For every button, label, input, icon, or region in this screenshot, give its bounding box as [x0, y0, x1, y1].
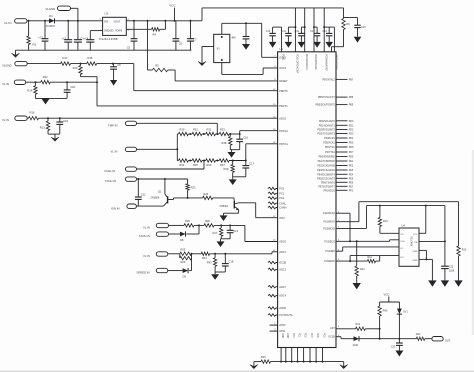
- wire: [214, 224, 245, 226]
- wire CLK: [336, 240, 399, 243]
- svg-text:C23: C23: [391, 346, 396, 349]
- svg-text:D1: D1: [49, 14, 53, 18]
- wire: [230, 149, 239, 151]
- svg-text:R45: R45: [261, 355, 266, 359]
- wire: [90, 30, 102, 32]
- resistor R5: [147, 20, 176, 81]
- wire: [169, 224, 185, 226]
- resistor R12: [41, 75, 51, 84]
- regulator U2: [99, 12, 130, 42]
- ground: [12, 50, 20, 57]
- svg-text:VOUT: VOUT: [114, 20, 121, 23]
- svg-text:R4: R4: [153, 32, 157, 36]
- svg-text:PE5/OC3C/INT5: PE5/OC3C/INT5: [317, 177, 335, 180]
- svg-text:TACH IN: TACH IN: [105, 179, 116, 183]
- svg-text:PD5/XCK1: PD5/XCK1: [323, 142, 335, 145]
- wire: [50, 81, 97, 83]
- capacitor C23: [391, 339, 403, 351]
- resistor R10: [378, 206, 388, 234]
- wire riser: [304, 8, 306, 52]
- svg-text:C10: C10: [266, 30, 271, 33]
- resistor R18: [87, 56, 97, 65]
- wire: [233, 176, 246, 178]
- wire: [472, 150, 474, 335]
- svg-text:PB7/XTAL2: PB7/XTAL2: [322, 78, 335, 81]
- svg-text:R37: R37: [220, 163, 225, 167]
- wire: [137, 178, 188, 180]
- svg-text:PE4/OC3B/INT4: PE4/OC3B/INT4: [317, 173, 335, 176]
- resistor R42: [416, 333, 425, 340]
- svg-text:PDT/CL: PDT/CL: [279, 143, 289, 146]
- resistor R11: [367, 256, 375, 263]
- ground rail: [254, 361, 344, 363]
- ground: [250, 362, 258, 369]
- svg-text:GND: GND: [281, 333, 283, 338]
- svg-text:PF0/ADC0: PF0/ADC0: [323, 189, 335, 192]
- svg-text:VDDCORE/VCAP: VDDCORE/VCAP: [296, 54, 299, 74]
- resistor R9: [342, 8, 350, 47]
- resistor R38: [222, 134, 233, 150]
- resistor R28: [204, 219, 214, 227]
- resistor R33: [219, 128, 229, 136]
- svg-text:PE2/XCK0/AIN0: PE2/XCK0/AIN0: [317, 165, 335, 168]
- svg-text:CLK: CLK: [401, 241, 406, 243]
- capacitor C4: [84, 31, 95, 51]
- svg-text:ORG: ORG: [413, 251, 418, 253]
- ground: [51, 134, 59, 141]
- svg-text:VDDANA/AREF: VDDANA/AREF: [324, 54, 327, 72]
- resistor R29: [180, 254, 192, 264]
- wire: [189, 258, 191, 271]
- wire: [55, 20, 103, 22]
- wire OSC1: [262, 23, 278, 57]
- MCU right pin stubs: [316, 78, 354, 192]
- svg-text:VL IN: VL IN: [111, 149, 118, 153]
- svg-text:TACH IN: TACH IN: [139, 234, 150, 238]
- node TACH_IN2: [139, 232, 169, 238]
- svg-text:C14: C14: [322, 30, 327, 33]
- ground: [242, 44, 250, 50]
- svg-text:PG5/EDO: PG5/EDO: [324, 260, 335, 263]
- wire: [336, 202, 459, 246]
- capacitor C5: [127, 20, 138, 50]
- wire: [224, 210, 239, 214]
- capacitor C12: [295, 27, 305, 42]
- node VCC2: [384, 292, 390, 302]
- wire: [136, 205, 163, 207]
- svg-text:R31: R31: [202, 256, 207, 260]
- wire: [27, 117, 28, 119]
- wire riser: [281, 27, 283, 52]
- wire VCC rail: [202, 8, 344, 21]
- resistor R13b: [457, 246, 467, 281]
- svg-text:C13: C13: [233, 229, 238, 233]
- ground: [220, 213, 228, 221]
- transistor Q2: [220, 198, 239, 210]
- ground: [228, 150, 236, 158]
- wire: [137, 148, 178, 150]
- svg-text:R13: R13: [40, 125, 45, 129]
- node VL_IN3: [2, 116, 27, 122]
- svg-text:ADC4: ADC4: [279, 295, 286, 298]
- wire OSC2: [222, 63, 278, 75]
- wire: [35, 97, 67, 99]
- node VL_IN2: [2, 80, 26, 86]
- capacitor C18: [222, 254, 234, 272]
- wire to MCU: [39, 117, 278, 119]
- svg-text:PD4/ICP1: PD4/ICP1: [324, 137, 335, 140]
- svg-text:PD6/T1C: PD6/T1C: [325, 146, 335, 149]
- svg-text:PE7: PE7: [349, 185, 354, 188]
- svg-text:PO/TRG/TA: PO/TRG/TA: [279, 314, 293, 317]
- ground: [340, 362, 348, 369]
- resistor R1: [27, 36, 37, 47]
- node TMP_IN: [108, 121, 137, 127]
- svg-text:PD3: PD3: [349, 133, 354, 136]
- wire: [202, 47, 214, 59]
- svg-text:D8: D8: [180, 238, 184, 242]
- svg-text:TMP IN: TMP IN: [108, 124, 117, 128]
- wire: [216, 133, 220, 135]
- wire to MCU: [96, 77, 278, 106]
- wire: [365, 328, 379, 330]
- wire: [26, 81, 41, 83]
- svg-text:VCC: VCC: [169, 4, 176, 8]
- wire VCC out: [126, 20, 202, 22]
- resistor R41: [356, 323, 366, 330]
- capacitor C19: [56, 118, 68, 134]
- svg-text:PB6: PB6: [349, 96, 354, 99]
- resistor R16: [29, 111, 39, 120]
- resistor R17: [61, 56, 71, 65]
- svg-text:R16: R16: [30, 111, 35, 115]
- svg-text:PD0/SCL/INT0: PD0/SCL/INT0: [319, 120, 335, 123]
- svg-text:D9: D9: [183, 274, 187, 278]
- svg-text:+C1: +C1: [38, 35, 43, 39]
- node VL_IN5: [143, 223, 169, 229]
- svg-text:PE4: PE4: [349, 173, 354, 176]
- svg-text:PD4: PD4: [349, 137, 354, 140]
- svg-text:R24: R24: [204, 192, 209, 196]
- ground: [198, 59, 206, 66]
- wire: [188, 160, 192, 162]
- wire: [194, 224, 204, 226]
- wire: [425, 338, 432, 340]
- svg-text:R12: R12: [360, 268, 365, 271]
- diode D11: [353, 336, 360, 347]
- svg-text:PG3/ECS: PG3/ECS: [324, 240, 335, 243]
- node VL_IN input: [4, 19, 27, 25]
- wire DI: [336, 247, 399, 251]
- svg-text:PC3: PC3: [310, 333, 312, 338]
- wire: [28, 20, 30, 36]
- wire: [137, 161, 205, 170]
- svg-text:R32: R32: [207, 128, 212, 132]
- ground: [285, 42, 293, 48]
- wire: [168, 253, 180, 255]
- transistor Q1: [151, 179, 174, 206]
- svg-text:C8: C8: [117, 63, 121, 67]
- label 8MHz: [232, 36, 236, 40]
- svg-text:93LC46B: 93LC46B: [410, 237, 412, 247]
- svg-text:PE3/OC3A/AIN1: PE3/OC3A/AIN1: [317, 169, 335, 172]
- svg-text:C6: C6: [179, 42, 183, 46]
- wire: [350, 256, 399, 262]
- svg-text:+C2: +C2: [61, 36, 66, 40]
- ground: [441, 280, 449, 286]
- capacitor C2: [61, 20, 72, 50]
- node SPEED_IN: [137, 268, 168, 274]
- wire: [221, 238, 230, 240]
- svg-text:R35: R35: [193, 163, 198, 167]
- ground: [41, 98, 49, 104]
- svg-text:VCC: VCC: [384, 292, 390, 296]
- ground: [428, 280, 436, 286]
- wire: [380, 232, 399, 234]
- ground: [298, 42, 306, 48]
- svg-text:SPEED IN: SPEED IN: [137, 271, 150, 275]
- svg-text:R27: R27: [213, 231, 218, 235]
- svg-text:PE5: PE5: [349, 177, 354, 180]
- svg-text:R43: R43: [207, 261, 212, 265]
- wire: [380, 302, 400, 309]
- svg-text:C22: C22: [449, 265, 454, 268]
- svg-text:R31: R31: [193, 128, 198, 132]
- svg-text:CANL: CANL: [279, 202, 286, 205]
- resistor R14: [27, 82, 37, 98]
- svg-text:U2: U2: [105, 12, 109, 16]
- ground: [211, 272, 219, 280]
- svg-text:GND/SD: GND/SD: [104, 30, 114, 33]
- svg-text:2N5401: 2N5401: [220, 205, 229, 208]
- svg-text:R1: R1: [33, 43, 37, 47]
- svg-text:PC5: PC5: [323, 333, 325, 338]
- wire: [229, 133, 240, 135]
- resistor R39: [224, 161, 235, 177]
- resistor R27: [213, 225, 223, 238]
- capacitor C9: [243, 23, 250, 44]
- svg-text:U4: U4: [402, 223, 406, 227]
- svg-text:AD7: AD7: [330, 327, 335, 330]
- svg-text:2N3906: 2N3906: [151, 197, 160, 200]
- svg-text:PE0: PE0: [349, 156, 354, 159]
- wire riser: [323, 8, 325, 52]
- node VCC: [169, 4, 176, 22]
- svg-text:VBAT/VDDSW: VBAT/VDDSW: [335, 54, 338, 70]
- diode D1: [46, 14, 56, 28]
- wire: [336, 213, 350, 241]
- wire: [239, 203, 278, 218]
- svg-text:AVDD: AVDD: [279, 307, 286, 310]
- wire to MCU: [246, 144, 278, 161]
- svg-text:PB0/T0: PB0/T0: [279, 90, 288, 93]
- capacitor C16: [236, 133, 248, 150]
- ground: [325, 42, 333, 48]
- capacitor C11: [282, 27, 296, 42]
- svg-text:C15: C15: [361, 26, 366, 29]
- svg-text:OSC2: OSC2: [279, 67, 286, 70]
- wire to MCU: [272, 252, 278, 254]
- MCU right net labels: [323, 211, 340, 338]
- svg-text:PD6: PD6: [349, 146, 354, 149]
- svg-text:R40: R40: [383, 310, 388, 313]
- svg-text:INT0: INT0: [279, 217, 285, 220]
- resistor R31: [192, 128, 202, 136]
- svg-text:PB5: PB5: [349, 104, 354, 107]
- svg-text:PD1/SDA/INT1: PD1/SDA/INT1: [319, 124, 336, 127]
- capacitor C6: [173, 21, 183, 50]
- resistor R35: [192, 159, 202, 167]
- wire: [419, 240, 446, 242]
- wire: [97, 63, 134, 65]
- wire: [186, 225, 199, 234]
- wire to MCU: [240, 131, 278, 134]
- svg-text:VDDIO2/VREF: VDDIO2/VREF: [314, 54, 317, 70]
- wire: [169, 233, 181, 235]
- svg-text:PD0: PD0: [349, 120, 354, 123]
- svg-text:PD1: PD1: [349, 124, 354, 127]
- wire: [0, 371, 474, 372]
- svg-text:R10: R10: [383, 219, 388, 223]
- ground: [229, 177, 237, 185]
- resistor R43: [207, 254, 217, 272]
- resistor R26: [184, 219, 194, 227]
- capacitor C13: [310, 27, 320, 42]
- capacitor C10: [266, 27, 282, 42]
- svg-text:C21: C21: [141, 192, 146, 196]
- svg-text:VCC: VCC: [413, 234, 418, 236]
- svg-text:PD2: PD2: [349, 129, 354, 132]
- svg-text:PC1: PC1: [279, 192, 284, 195]
- wire: [419, 250, 426, 259]
- wire to MCU: [134, 64, 278, 91]
- ground: [217, 239, 225, 247]
- node VL_GND tag: [46, 6, 71, 11]
- microcontroller U1: [278, 47, 336, 348]
- ground: [395, 351, 403, 357]
- svg-text:R18: R18: [88, 56, 93, 60]
- svg-text:PE1: PE1: [349, 160, 354, 163]
- wire: [222, 22, 262, 34]
- svg-text:PG4/EDI: PG4/EDI: [325, 250, 335, 253]
- wire: [27, 20, 49, 22]
- wire: [48, 133, 60, 135]
- resistor R45: [261, 355, 271, 363]
- svg-text:C19: C19: [63, 119, 68, 123]
- svg-text:PD7/T0A: PD7/T0A: [325, 151, 335, 154]
- svg-text:PE6: PE6: [349, 181, 354, 184]
- wire: [336, 337, 354, 339]
- capacitor C22: [441, 265, 455, 280]
- svg-text:PG2/MOSI: PG2/MOSI: [323, 227, 335, 230]
- svg-text:AVDD/ADREF+: AVDD/ADREF+: [305, 54, 308, 71]
- resonator X1: [214, 34, 230, 62]
- svg-text:R23: R23: [191, 186, 196, 190]
- wire: [213, 197, 234, 199]
- svg-text:R25: R25: [181, 247, 186, 251]
- svg-text:PB6/TOSC1/XT: PB6/TOSC1/XT: [318, 96, 335, 99]
- capacitor C15: [344, 18, 367, 37]
- ground: [354, 37, 362, 43]
- diode D10 zener: [397, 309, 409, 339]
- svg-text:PD3/TXD1/INT3: PD3/TXD1/INT3: [318, 133, 336, 136]
- svg-text:PB1/T1: PB1/T1: [279, 105, 288, 108]
- resistor R31b: [201, 252, 209, 260]
- svg-text:1N4007: 1N4007: [46, 24, 56, 28]
- wire DO: [336, 260, 367, 262]
- svg-text:PC0: PC0: [292, 333, 294, 338]
- svg-text:R36: R36: [207, 163, 212, 167]
- svg-text:IGN IN: IGN IN: [111, 206, 120, 210]
- capacitor C7: [187, 20, 197, 50]
- wire: [419, 258, 432, 280]
- svg-text:PD7: PD7: [349, 151, 354, 154]
- svg-text:RESET: RESET: [279, 80, 288, 83]
- svg-text:R5: R5: [155, 63, 159, 67]
- wire: [27, 63, 60, 65]
- wire riser: [294, 8, 296, 52]
- svg-text:VL IN: VL IN: [2, 118, 9, 122]
- svg-text:VL IN: VL IN: [143, 254, 150, 258]
- node VL_IN4: [111, 147, 137, 153]
- svg-text:VL IN: VL IN: [4, 21, 11, 25]
- svg-text:R38: R38: [222, 141, 227, 145]
- capacitor C8: [110, 63, 121, 80]
- svg-text:PC0: PC0: [279, 188, 284, 191]
- ground: [269, 42, 277, 48]
- svg-text:CS: CS: [401, 234, 405, 236]
- wire grid left: [176, 134, 178, 161]
- svg-text:PE3: PE3: [349, 169, 354, 172]
- svg-text:VL IN: VL IN: [2, 82, 9, 86]
- wire: [332, 47, 344, 52]
- ground: [313, 42, 321, 48]
- svg-text:PE2: PE2: [349, 165, 354, 168]
- svg-text:PD2/RXD1/INT2: PD2/RXD1/INT2: [317, 129, 335, 132]
- wire: [71, 8, 79, 21]
- diode D9: [183, 268, 189, 278]
- svg-text:FUEL IN: FUEL IN: [105, 169, 116, 173]
- svg-text:4148: 4148: [353, 344, 359, 347]
- resistor R24: [203, 192, 213, 199]
- resistor R30: [177, 128, 188, 136]
- diode D8: [180, 231, 186, 242]
- MCU bottom pins: [280, 333, 325, 363]
- svg-text:PF0: PF0: [349, 189, 354, 192]
- capacitor C17: [242, 160, 254, 177]
- svg-text:R28: R28: [205, 219, 210, 223]
- svg-text:VO/FB: VO/FB: [115, 30, 123, 33]
- resistor R25: [180, 247, 192, 255]
- svg-text:VIN: VIN: [104, 20, 108, 23]
- MCU top pin labels: [282, 54, 338, 74]
- resistor R37: [219, 159, 229, 167]
- svg-text:R14: R14: [27, 89, 32, 93]
- svg-text:C16: C16: [243, 135, 248, 139]
- svg-text:ATN0: ATN0: [279, 324, 286, 327]
- svg-text:C11: C11: [282, 30, 287, 33]
- svg-text:R33: R33: [220, 128, 225, 132]
- node VL_IN6: [143, 252, 168, 258]
- wire RESET: [175, 80, 278, 82]
- resistor R34: [177, 159, 188, 167]
- wire: [71, 63, 87, 65]
- svg-text:1206: 1206: [449, 269, 455, 272]
- svg-text:PG0/SCK2: PG0/SCK2: [323, 212, 335, 215]
- svg-text:R26: R26: [185, 219, 190, 223]
- svg-text:R29: R29: [181, 260, 186, 264]
- svg-text:C13: C13: [310, 30, 315, 33]
